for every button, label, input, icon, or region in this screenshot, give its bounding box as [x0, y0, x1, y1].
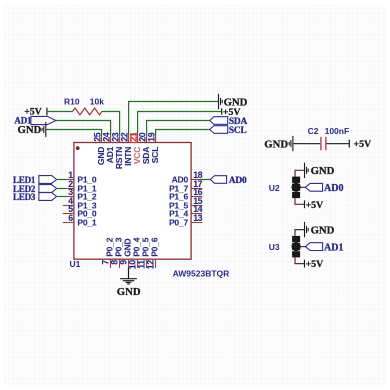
ground symbol C2 — [289, 136, 293, 151]
tag SDA — [210, 117, 228, 125]
tag SCL — [210, 126, 228, 134]
wire pin22 INTN to right ground — [129, 102, 219, 135]
tag AD0 right of chip — [210, 176, 226, 184]
tag AD1 — [31, 116, 56, 124]
pin stub 13 — [191, 222, 202, 224]
wire pin9 to ground — [128, 268, 130, 278]
highlight box pin 21 — [131, 134, 138, 143]
jumper U3 center circle — [292, 242, 301, 251]
wire U3 bottom to +5V — [295, 257, 304, 263]
wire +5V to R10 — [47, 111, 73, 113]
capacitor C2 plates — [321, 137, 326, 150]
svg-text:U2: U2 — [269, 183, 280, 193]
svg-text:10k: 10k — [90, 97, 104, 107]
pin stub 4 — [63, 205, 74, 207]
svg-text:SCL: SCL — [150, 147, 160, 163]
pin stub 18 — [191, 179, 201, 181]
pin stubs 25-19 top — [102, 134, 156, 142]
wire pin20 SDA to tag — [147, 121, 210, 135]
svg-text:12: 12 — [146, 260, 156, 269]
svg-text:LED3: LED3 — [13, 192, 36, 202]
jumper U3 pad 2 — [292, 243, 300, 250]
jumper U2 center circle — [292, 183, 301, 192]
pin stub 6 — [63, 222, 74, 224]
jumper U2 pad 3 — [292, 192, 300, 198]
ground symbol U2 — [305, 163, 309, 178]
tag AD1 U3 — [305, 243, 322, 251]
jumper U3 pad 1 — [292, 236, 300, 242]
jumper U3 pad 3 — [292, 251, 300, 257]
pin stub 3 — [66, 196, 74, 198]
pin 1 indicator dot — [76, 146, 80, 150]
svg-text:6: 6 — [68, 213, 73, 223]
wire pin25 GND to left ground — [46, 130, 102, 135]
pin stub 2 — [66, 188, 74, 190]
pin stub 16 — [191, 196, 202, 198]
wire U3 top to GND — [295, 230, 304, 236]
pin stub 9 — [128, 259, 130, 268]
pin stub 15 — [191, 205, 202, 207]
IC U1 chip body AW9523BTQR — [74, 143, 191, 260]
wire U2 top to GND — [295, 170, 304, 176]
svg-text:C2: C2 — [308, 126, 319, 136]
svg-text:AD1: AD1 — [324, 243, 343, 254]
svg-text:U1: U1 — [70, 259, 81, 269]
pin stub 10 — [137, 259, 139, 268]
pin stub 12 — [155, 259, 157, 268]
wire LED3 to pin 3 — [57, 196, 66, 198]
svg-text:13: 13 — [193, 213, 202, 223]
pin stub 7 — [110, 259, 112, 268]
svg-text:GND: GND — [311, 224, 335, 236]
wire pin18 AD0 to tag — [201, 179, 211, 181]
wire pin21 VCC to +5V — [138, 112, 222, 135]
pin stub 1 — [66, 179, 74, 181]
svg-text:R10: R10 — [64, 97, 80, 107]
svg-text:P0_7: P0_7 — [169, 218, 189, 228]
tag AD0 U2 — [305, 183, 322, 191]
svg-text:19: 19 — [146, 132, 156, 141]
wire C2 to +5V — [327, 143, 349, 145]
wire U2 bottom to +5V — [295, 198, 304, 204]
+5V bar symbol C2 — [348, 140, 350, 148]
svg-text:+5V: +5V — [306, 200, 324, 211]
wire LED1 to pin 1 — [57, 179, 66, 181]
pin stub 14 — [191, 213, 202, 215]
svg-text:P0_1: P0_1 — [77, 218, 97, 228]
+5V bar symbol left — [46, 108, 48, 116]
pin stub 17 — [191, 188, 202, 190]
pin stub 11 — [146, 259, 148, 268]
svg-text:GND: GND — [18, 124, 42, 136]
wire U3 mid to AD1 — [300, 246, 305, 248]
pin stub 5 — [63, 213, 74, 215]
svg-text:AD0: AD0 — [324, 183, 343, 194]
wire U2 mid to AD0 — [300, 186, 305, 188]
svg-text:+5V: +5V — [354, 139, 372, 150]
ground symbol top right — [219, 94, 223, 109]
wire pin23 RSTN to R10 — [102, 112, 120, 135]
+5V bar symbol top right — [221, 108, 223, 115]
ground symbol below chip — [120, 279, 137, 284]
jumper U2 pad 2 — [292, 184, 300, 191]
tag LED1 — [39, 176, 57, 184]
resistor R10 — [73, 108, 102, 115]
svg-text:GND: GND — [117, 286, 141, 298]
wire GND to C2 — [293, 143, 320, 145]
svg-text:AD0: AD0 — [229, 176, 247, 186]
wire pin19 SCL to tag — [156, 130, 210, 135]
tag LED3 — [39, 193, 57, 201]
svg-text:AW9523BTQR: AW9523BTQR — [173, 269, 230, 279]
tag LED2 — [39, 185, 57, 193]
ground symbol left — [42, 122, 46, 137]
svg-text:SCL: SCL — [229, 126, 247, 136]
wire pin24 AD1 to tag — [56, 121, 111, 135]
svg-text:100nF: 100nF — [325, 126, 350, 136]
svg-text:P0_6: P0_6 — [149, 237, 159, 257]
pin stub 8 — [119, 259, 121, 268]
wire LED2 to pin 2 — [57, 188, 66, 190]
ground symbol U3 — [305, 222, 309, 237]
svg-text:GND: GND — [264, 138, 288, 150]
+5V bar symbol U2 — [304, 200, 306, 208]
svg-text:GND: GND — [311, 165, 335, 177]
svg-text:U3: U3 — [269, 242, 280, 252]
+5V bar symbol U3 — [304, 260, 306, 268]
svg-text:+5V: +5V — [306, 259, 324, 270]
jumper U2 pad 1 — [292, 177, 300, 183]
